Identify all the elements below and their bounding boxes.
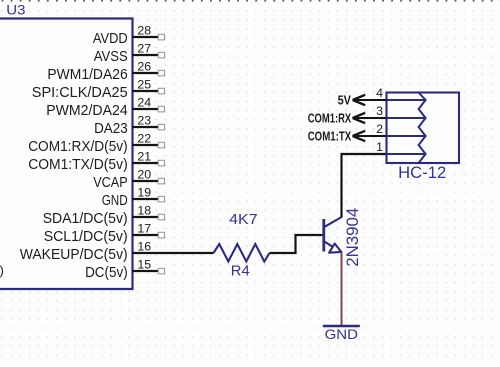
net label 5V (338, 94, 352, 108)
HC-12 pin 3 (353, 104, 387, 123)
svg-text:23: 23 (137, 114, 151, 128)
svg-text:HC-12: HC-12 (398, 164, 446, 182)
svg-text:2: 2 (376, 122, 383, 136)
HC-12 pin 2 (353, 122, 387, 141)
svg-text:COM1:TX: COM1:TX (308, 130, 352, 144)
pin 27 (AVSS) (94, 42, 165, 66)
wire pin16 to R4 (159, 252, 214, 254)
svg-text:DA23: DA23 (94, 121, 128, 137)
svg-text:PWM2/DA24: PWM2/DA24 (46, 103, 128, 119)
wire Q1 emitter to GND (net GND) (341, 253, 343, 326)
svg-text:GND: GND (325, 327, 358, 343)
pin 17 (SCL1/DC(5v)) (44, 222, 165, 246)
net label COM1:TX (308, 130, 352, 144)
pin 20 (VCAP) (93, 168, 164, 192)
svg-text:19: 19 (137, 186, 151, 200)
svg-text:4: 4 (376, 86, 383, 100)
designator HC-12 (398, 164, 446, 182)
svg-text:28: 28 (137, 24, 151, 38)
svg-text:17: 17 (137, 222, 151, 236)
svg-text:18: 18 (137, 204, 151, 218)
pin 19 (GND) (102, 186, 165, 210)
HC-12 pin 4 (353, 86, 387, 105)
label 2N3904 (344, 208, 362, 267)
svg-text:27: 27 (137, 42, 151, 56)
designator U3 (6, 3, 25, 19)
HC-12 pin 1 (376, 140, 383, 154)
svg-text:16: 16 (137, 240, 151, 254)
svg-text:SPI:CLK/DA25: SPI:CLK/DA25 (32, 85, 128, 101)
svg-text:3: 3 (376, 104, 383, 118)
designator label R4 (231, 264, 250, 280)
svg-text:24: 24 (137, 96, 151, 110)
svg-text:WAKEUP/DC(5v): WAKEUP/DC(5v) (20, 247, 128, 263)
svg-text:AVSS: AVSS (94, 49, 128, 65)
pin 26 (PWM1/DA26) (47, 60, 164, 84)
svg-text:GND: GND (102, 193, 128, 209)
wire HC-12 pin1 to Q1 collector (342, 154, 387, 218)
svg-text:15: 15 (137, 258, 151, 272)
svg-text:SDA1/DC(5v): SDA1/DC(5v) (43, 211, 128, 227)
svg-text:VCAP: VCAP (93, 175, 128, 191)
svg-text:): ) (0, 263, 4, 278)
svg-text:AVDD: AVDD (93, 31, 128, 47)
pin 25 (SPI:CLK/DA25) (32, 78, 165, 102)
svg-text:4K7: 4K7 (229, 212, 257, 228)
svg-text:20: 20 (137, 168, 151, 182)
svg-text:5V: 5V (338, 94, 352, 108)
IC U3 body (0, 19, 133, 290)
svg-text:DC(5v): DC(5v) (85, 265, 128, 281)
svg-text:21: 21 (137, 150, 151, 164)
net label COM1:RX (308, 112, 352, 126)
pin 22 (COM1:RX/D(5v)) (28, 132, 164, 156)
svg-text:25: 25 (137, 78, 151, 92)
svg-text:COM1:RX: COM1:RX (308, 112, 352, 126)
pin 21 (COM1:TX/D(5v)) (28, 150, 164, 174)
svg-text:26: 26 (137, 60, 151, 74)
svg-text:R4: R4 (231, 264, 250, 280)
pin 24 (PWM2/DA24) (46, 96, 164, 120)
pin 23 (DA23) (94, 114, 164, 138)
pin 16 (WAKEUP/DC(5v)) (20, 240, 159, 264)
svg-text:COM1:TX/D(5v): COM1:TX/D(5v) (28, 157, 128, 173)
svg-text:2N3904: 2N3904 (344, 208, 362, 267)
svg-text:SCL1/DC(5v): SCL1/DC(5v) (44, 229, 128, 245)
svg-text:22: 22 (137, 132, 151, 146)
ground GND power port (323, 326, 360, 343)
svg-text:U3: U3 (6, 3, 25, 19)
wire R4 to Q1 base (270, 235, 323, 253)
svg-text:COM1:RX/D(5v): COM1:RX/D(5v) (28, 139, 128, 155)
module HC-12 body (387, 93, 460, 164)
transistor Q1 2N3904 (322, 217, 341, 253)
resistor R4 (214, 244, 270, 262)
pin 15 (DC(5v)) (85, 258, 164, 282)
pin 28 (AVDD) (93, 24, 165, 48)
value label 4K7 (229, 212, 257, 228)
svg-text:PWM1/DA26: PWM1/DA26 (47, 67, 127, 83)
pin 18 (SDA1/DC(5v)) (43, 204, 165, 228)
svg-text:1: 1 (376, 140, 383, 154)
left-side pin name fragment ")" (0, 263, 4, 278)
